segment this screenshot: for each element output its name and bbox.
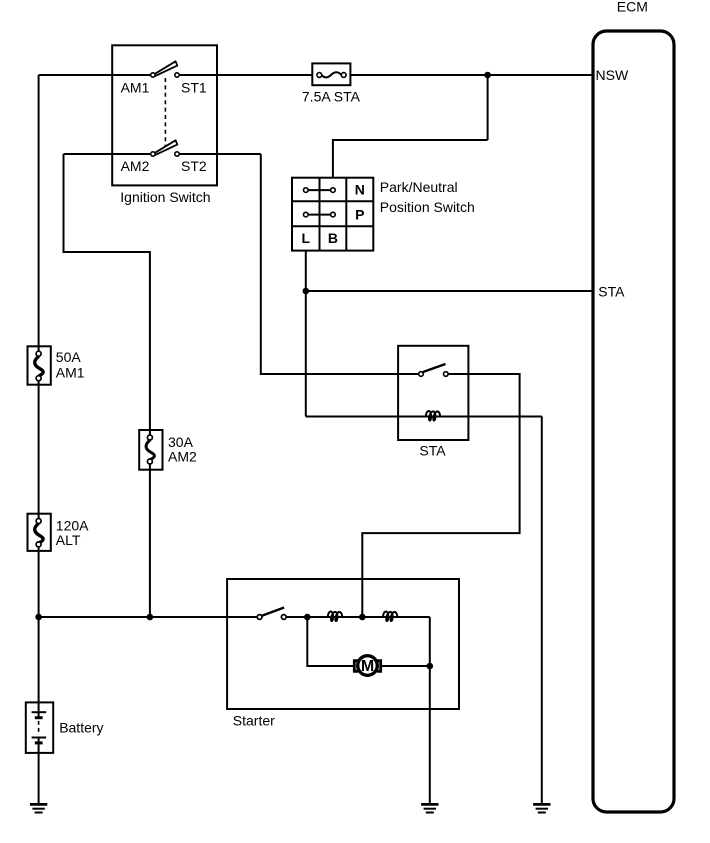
wire ST2 down to relay switch xyxy=(261,154,421,374)
battery plate long top xyxy=(32,711,47,713)
fuse F1 contact left xyxy=(317,73,322,78)
svg-text:Position Switch: Position Switch xyxy=(380,199,475,215)
starter switch lever xyxy=(262,608,284,616)
junction starter solenoid center xyxy=(359,614,366,621)
wire starter switch to output xyxy=(284,616,430,618)
wire STA horizontal to ECM xyxy=(306,290,592,292)
svg-text:120A: 120A xyxy=(56,518,89,534)
junction NSW branch xyxy=(484,72,491,79)
svg-text:AM2: AM2 xyxy=(168,448,197,464)
wire battery feed horizontal xyxy=(39,616,260,618)
wire AM2 branch left xyxy=(64,153,153,155)
park/neutral P contact pair xyxy=(304,212,336,217)
svg-text:Starter: Starter xyxy=(233,713,275,729)
motor M1 bracket right xyxy=(377,661,381,672)
svg-text:AM1: AM1 xyxy=(121,79,150,95)
starter coil 1 xyxy=(328,612,342,621)
svg-text:Battery: Battery xyxy=(59,720,103,736)
battery plate long bottom xyxy=(32,737,47,739)
motor M1 bracket left xyxy=(354,661,358,672)
svg-text:50A: 50A xyxy=(56,349,82,365)
wire left main vertical (battery column) xyxy=(38,75,40,803)
ignition switch lever AM2-ST2 xyxy=(154,140,177,155)
junction STA line xyxy=(303,288,310,295)
STA relay contact left xyxy=(419,372,424,377)
starter coil 2 xyxy=(383,612,397,621)
junction starter switch out xyxy=(304,614,311,621)
STA relay box xyxy=(398,346,468,440)
svg-text:AM2: AM2 xyxy=(121,158,150,174)
ignition switch dashed link xyxy=(164,78,166,147)
svg-text:B: B xyxy=(328,230,338,246)
ignition switch lever AM1-ST1 xyxy=(154,61,177,76)
svg-text:Ignition Switch: Ignition Switch xyxy=(120,189,210,205)
svg-text:N: N xyxy=(355,182,365,198)
wire top NSW run: battery feed to AM1 xyxy=(39,74,153,76)
svg-text:30A: 30A xyxy=(168,434,194,450)
svg-text:NSW: NSW xyxy=(596,67,629,83)
fusible link 30A AM2 xyxy=(139,430,162,470)
svg-text:7.5A STA: 7.5A STA xyxy=(302,89,361,105)
starter contact left xyxy=(257,615,262,620)
contact AM2 xyxy=(151,152,155,156)
motor M1 circle xyxy=(358,656,378,676)
wire park/neutral L down to relay coil feed xyxy=(305,251,307,417)
ground STA coil xyxy=(533,804,550,812)
wire ST2 branch right xyxy=(177,153,261,155)
svg-text:M: M xyxy=(361,658,374,675)
fusible link 50A AM1 xyxy=(28,346,51,384)
svg-text:ST2: ST2 xyxy=(181,158,207,174)
park/neutral N contact pair xyxy=(304,188,336,193)
STA relay coil xyxy=(426,411,440,420)
ignition switch box xyxy=(112,45,217,185)
wire jog to park/neutral B xyxy=(333,140,488,178)
junction battery feed left xyxy=(35,614,42,621)
ECM box xyxy=(593,31,674,812)
fuse F1 contact right xyxy=(341,73,346,78)
svg-text:ST1: ST1 xyxy=(181,79,207,95)
wire starter output down to ground xyxy=(429,617,431,803)
wire relay coil down to ground xyxy=(541,417,543,804)
junction motor output xyxy=(427,663,434,670)
battery plate short bottom xyxy=(35,741,43,744)
wire relay coil line xyxy=(306,416,542,418)
svg-text:ALT: ALT xyxy=(56,532,81,548)
ground battery xyxy=(30,804,47,812)
contact AM1 xyxy=(151,73,155,77)
wire AM2 jog down to 30A fuse column xyxy=(64,154,150,617)
starter box xyxy=(227,579,459,709)
wire ST1 to fuse xyxy=(177,74,319,76)
wire fuse to ECM NSW pin xyxy=(344,74,592,76)
svg-text:ECM: ECM xyxy=(617,0,648,14)
contact ST2 xyxy=(175,152,179,156)
contact ST1 xyxy=(175,73,179,77)
battery box xyxy=(26,702,53,753)
ground starter xyxy=(421,804,438,812)
starter contact right xyxy=(281,615,286,620)
fuse F1 element xyxy=(322,72,342,77)
wire NSW junction down xyxy=(487,75,489,140)
svg-text:L: L xyxy=(302,230,311,246)
svg-text:STA: STA xyxy=(419,443,446,459)
wire relay switch out to starter jog xyxy=(362,374,519,617)
svg-text:STA: STA xyxy=(598,284,625,300)
STA relay switch lever xyxy=(423,364,446,372)
svg-text:AM1: AM1 xyxy=(56,365,85,381)
park/neutral position switch box xyxy=(292,178,373,251)
STA relay contact right xyxy=(444,372,449,377)
fusible link 120A ALT xyxy=(28,514,51,551)
battery plate short top xyxy=(35,716,43,719)
wire motor branch xyxy=(307,617,430,666)
svg-text:P: P xyxy=(355,206,364,222)
battery dashed center xyxy=(38,721,40,735)
junction AM2 fuse column xyxy=(147,614,154,621)
fuse F1 7.5A STA box xyxy=(312,63,350,85)
svg-text:Park/Neutral: Park/Neutral xyxy=(380,179,458,195)
